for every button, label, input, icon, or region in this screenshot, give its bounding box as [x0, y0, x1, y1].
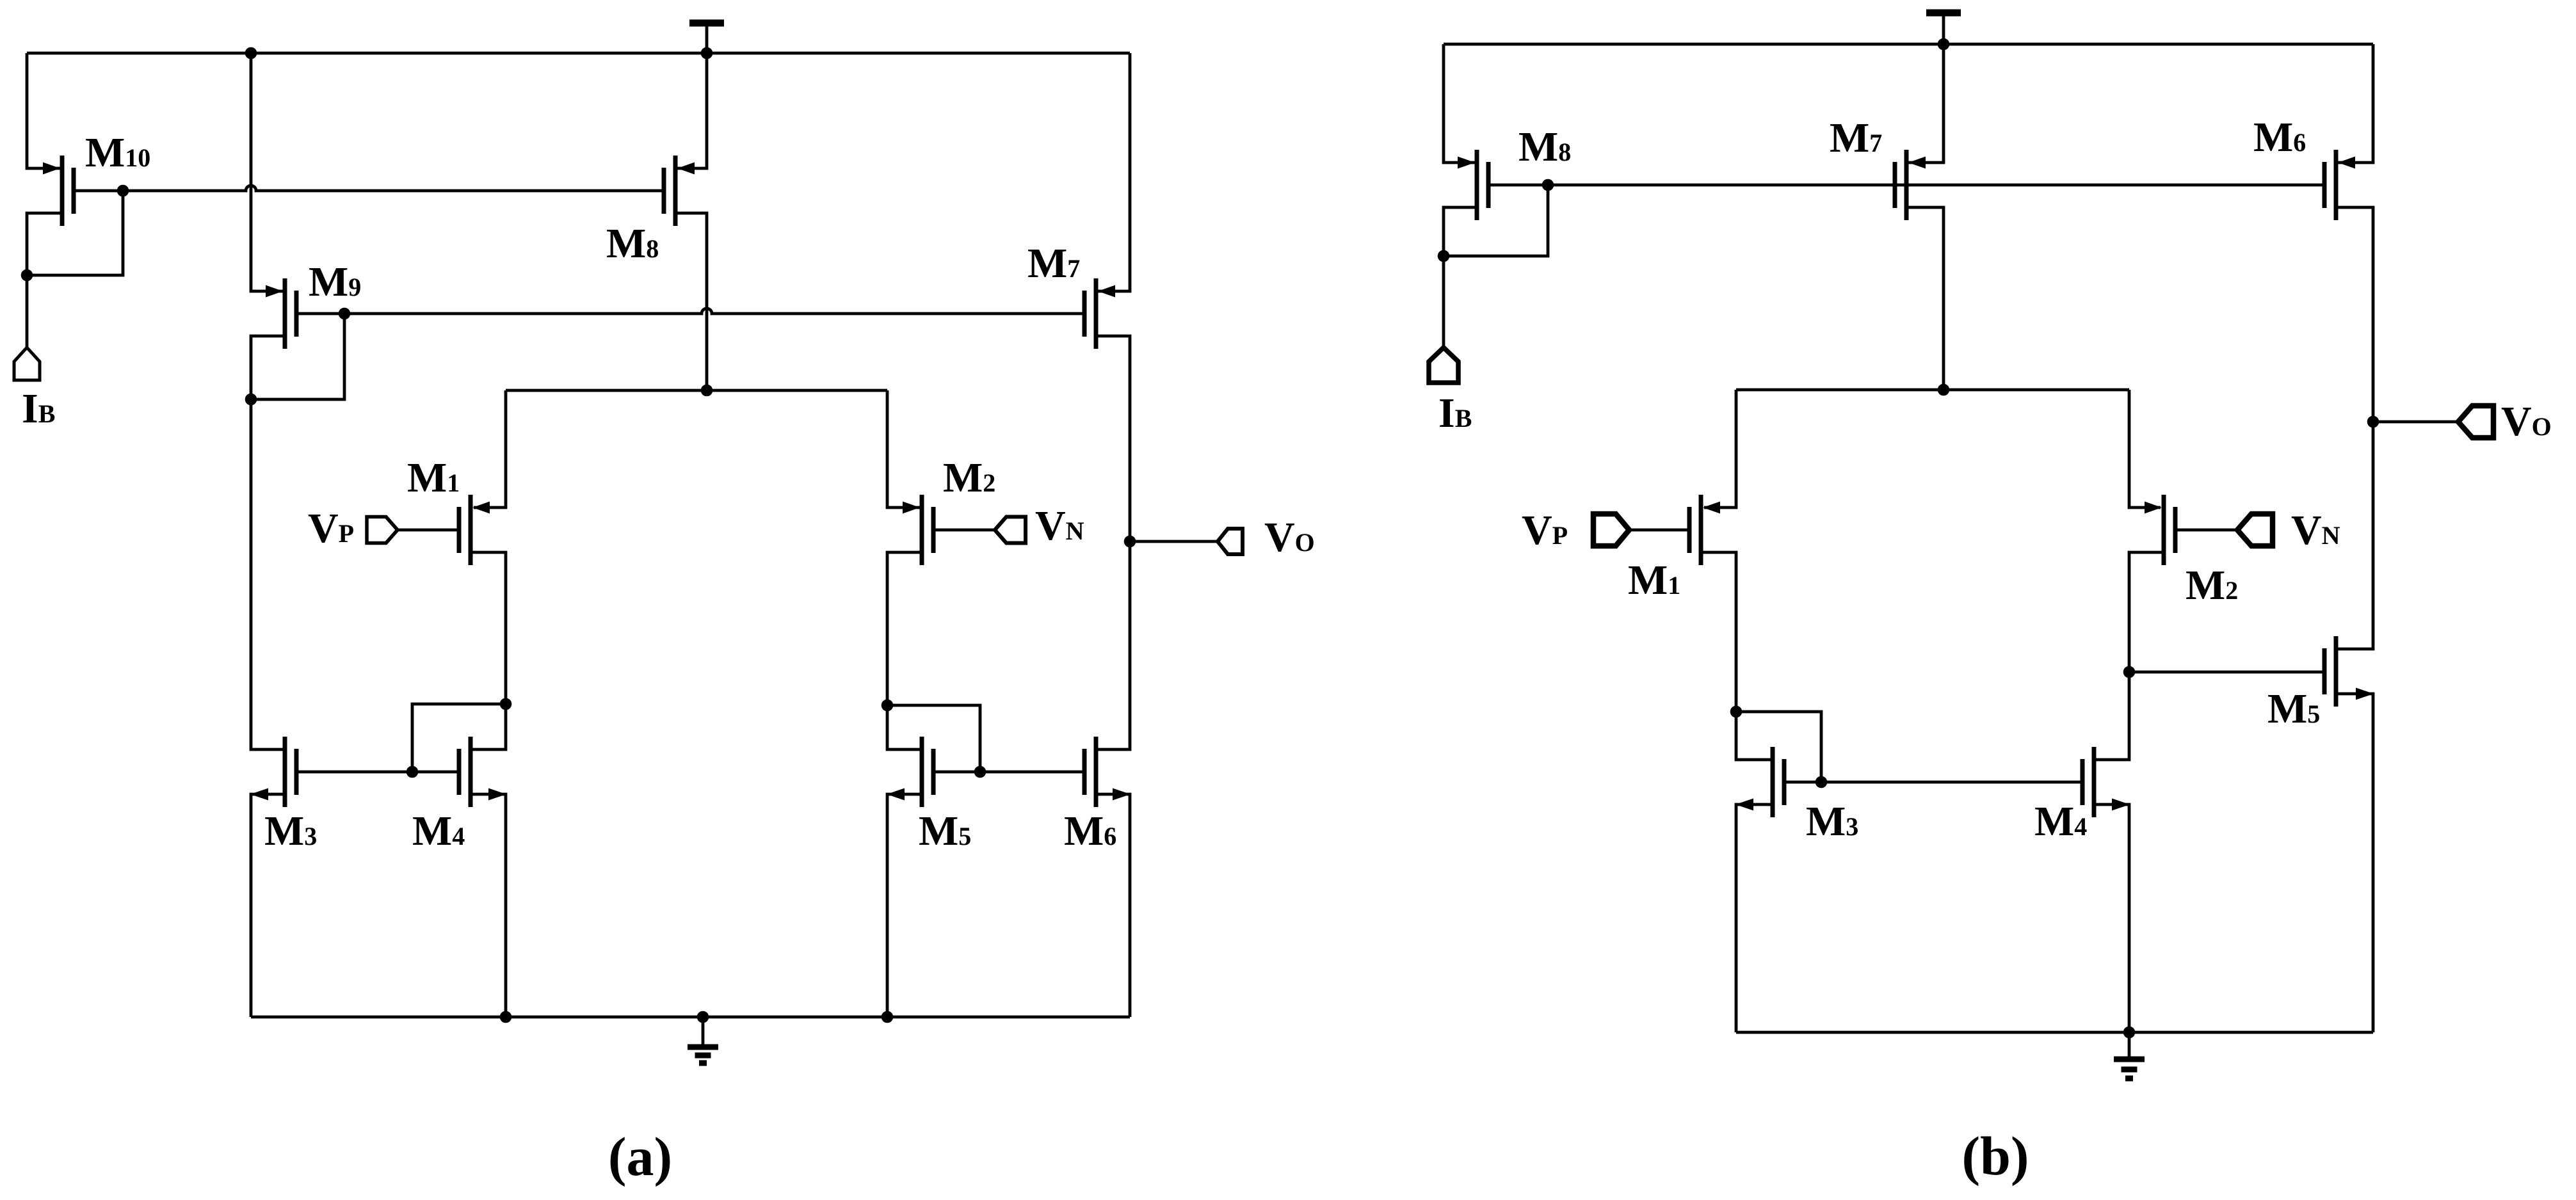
- wire: gate bias line M8-M7-M6 (b): [1488, 179, 2324, 191]
- wire: M7 source from VDD rail: [1096, 53, 1130, 291]
- wire: tail rail of diff pair (b): [1736, 384, 2129, 396]
- wire: VN input lead (a): [933, 529, 995, 532]
- transistor M9: [266, 278, 296, 349]
- wire: gate bias line M9-M7 (hop over M8 drain line): [296, 308, 1084, 320]
- transistor M8: [664, 156, 695, 226]
- wire: mirror gate line M3-M4 (b): [1784, 781, 2082, 784]
- wire: M3 source to ground rail: [251, 794, 285, 1017]
- transistor M5 (b): [2324, 636, 2374, 707]
- wire: M10 source from VDD rail: [27, 53, 62, 168]
- wire: M3 gate-drain tie (b): [1736, 712, 1827, 788]
- wire: M8 source from VDD rail (b): [1444, 44, 1477, 163]
- wire: M5 gate-drain tie: [887, 705, 986, 778]
- transistor M3: [250, 737, 296, 807]
- port pin VO (a): [1218, 529, 1243, 554]
- wire: ground rail (a): [251, 1011, 1130, 1023]
- svg-text:(a): (a): [608, 1126, 672, 1187]
- port pin IB (a): [14, 348, 40, 380]
- wire: M5 source to ground rail (b): [2336, 694, 2373, 1032]
- port pin VO (b): [2458, 406, 2493, 438]
- wire: node line to M5 gate (b): [2129, 671, 2324, 674]
- transistor M8 (b): [1458, 150, 1488, 220]
- wire: M10 gate-drain tie and IB branch (node A): [21, 191, 123, 348]
- wire: VN input lead (b): [2175, 529, 2237, 532]
- wire: M7 drain / output column (a): [1096, 336, 1136, 749]
- wire: M7 source from VDD rail (b): [1906, 44, 1944, 163]
- port pin VN (b): [2237, 514, 2273, 546]
- wire: M1 source (b): [1704, 390, 1736, 508]
- wire: M6 drain / output column / M5 drain (b): [2336, 207, 2379, 649]
- transistor M4: [459, 737, 506, 807]
- wire: VDD top rail (b): [1444, 38, 2373, 51]
- wire: M9 drain down to M3 drain: [251, 336, 285, 749]
- transistor M10: [43, 156, 74, 226]
- transistor M4 (b): [2082, 747, 2130, 817]
- wire: mirror gate line M5-M6: [933, 771, 1084, 774]
- wire: M3 source to ground rail (b): [1736, 804, 1773, 1032]
- transistor M3 (b): [1735, 747, 1784, 817]
- transistor M1: [459, 495, 490, 565]
- svg-text:(b): (b): [1961, 1125, 2029, 1187]
- wire: VP input lead (b): [1629, 529, 1689, 532]
- ground symbol (a): [688, 1017, 718, 1063]
- wire: M2 drain down to M5 drain: [881, 552, 922, 749]
- port pin VN (a): [995, 517, 1026, 543]
- port pin VP (a): [367, 517, 398, 543]
- wire: M8 drain to tail node: [675, 213, 707, 390]
- wire: tail rail of diff pair (a): [506, 385, 887, 397]
- wire: gate bias line M10-M8 (hop over M9 source line): [74, 185, 664, 197]
- wire: M6 source to ground rail: [1096, 794, 1130, 1017]
- wire: mirror gate line M3-M4: [296, 771, 459, 774]
- transistor M2 (b): [2145, 495, 2175, 565]
- transistor M6 (b): [2324, 150, 2355, 220]
- wire: M6 source from VDD rail (b): [2336, 44, 2373, 163]
- power supply VDD symbol (b): [1926, 13, 1961, 44]
- wire: VP input lead (a): [398, 529, 459, 532]
- wire: VO output lead (a): [1130, 540, 1218, 543]
- transistor M2: [903, 495, 933, 565]
- wire: M7 drain to tail node (b): [1906, 207, 1944, 390]
- wire: VO output lead (b): [2373, 420, 2458, 424]
- wire: M4 source to ground rail: [471, 794, 506, 1017]
- transistor M1 (b): [1689, 495, 1720, 565]
- wire: M2 drain down to M4 drain (b): [2094, 552, 2164, 760]
- wire: M2 source (b): [2129, 390, 2161, 508]
- wire: M4 gate-drain tie: [407, 704, 506, 778]
- wire: M9 source from VDD rail: [251, 53, 285, 291]
- wire: M1 drain down to M3 drain (b): [1701, 552, 1773, 760]
- wire: M5 source to ground rail: [887, 794, 922, 1017]
- wire: M8 source from VDD rail: [675, 53, 707, 168]
- wire: VDD top rail (a): [27, 47, 1130, 60]
- wire: ground rail (b): [1736, 1027, 2373, 1039]
- wire: M9 gate-drain tie: [245, 314, 344, 405]
- transistor M6: [1084, 737, 1131, 807]
- port pin VP (b): [1593, 514, 1629, 546]
- wire: M2 source: [887, 390, 922, 508]
- port pin IB (b): [1429, 348, 1458, 383]
- ground symbol (b): [2114, 1032, 2145, 1078]
- wire: M4 source to ground rail (b): [2094, 804, 2129, 1032]
- transistor M5: [887, 737, 933, 807]
- transistor M7: [1084, 278, 1115, 349]
- wire: M8 gate-drain tie and IB branch (b): [1438, 185, 1548, 348]
- wire: M1 source: [474, 390, 506, 508]
- wire: M1 drain down to M4 drain: [471, 552, 511, 749]
- power supply VDD symbol (a): [689, 23, 724, 53]
- transistor M7 (b): [1895, 150, 1926, 220]
